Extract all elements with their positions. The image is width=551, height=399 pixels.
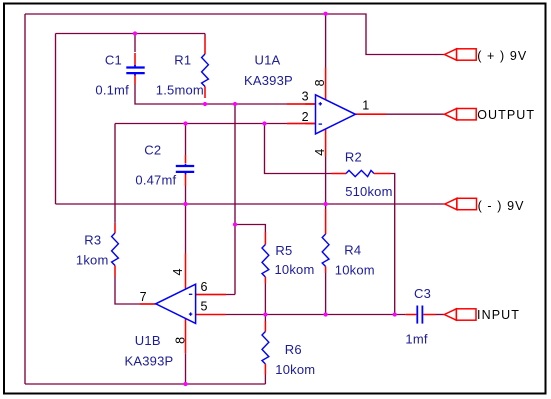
node junction pin8 bottom rail bbox=[183, 382, 187, 386]
resistor R1 bbox=[156, 37, 209, 99]
wire R2 branch from pin2 net bbox=[265, 124, 332, 174]
node junction R2 input net bbox=[393, 312, 397, 316]
wire C2 top stub bbox=[185, 124, 187, 156]
svg-text:( - ) 9V: ( - ) 9V bbox=[478, 199, 525, 213]
wire R2 right to input node bbox=[391, 174, 395, 315]
svg-text:U1B: U1B bbox=[135, 333, 161, 348]
wire pin2 / C2 top net bbox=[115, 123, 316, 125]
svg-text:C2: C2 bbox=[144, 143, 161, 158]
resistor R6 bbox=[262, 321, 315, 377]
svg-text:1: 1 bbox=[362, 99, 369, 113]
svg-text:8: 8 bbox=[313, 79, 327, 86]
wire R1 top stub bbox=[204, 34, 206, 37]
svg-text:4: 4 bbox=[171, 268, 185, 275]
svg-text:R1: R1 bbox=[174, 52, 191, 67]
resistor R5 bbox=[262, 232, 315, 284]
port INPUT bbox=[444, 308, 520, 322]
wire C2 bottom stub bbox=[185, 186, 187, 204]
resistor R2 bbox=[332, 149, 393, 199]
svg-text:10kom: 10kom bbox=[275, 362, 315, 377]
svg-text:( + ) 9V: ( + ) 9V bbox=[477, 49, 527, 63]
svg-text:R5: R5 bbox=[275, 243, 292, 258]
svg-text:0.1mf: 0.1mf bbox=[95, 82, 129, 97]
wire to R5 top bbox=[235, 225, 265, 233]
svg-text:U1A: U1A bbox=[255, 53, 281, 68]
svg-text:1.5mom: 1.5mom bbox=[156, 83, 204, 98]
svg-text:1mf: 1mf bbox=[405, 332, 427, 347]
wire pin5 / input net bbox=[226, 314, 406, 316]
op-amp U1A bbox=[244, 53, 386, 157]
node junction R5 branch bbox=[233, 222, 237, 226]
wire R3 branch vertical bbox=[114, 124, 116, 223]
wire U1A pin4 vertical bbox=[325, 157, 327, 205]
node junction R4 input net bbox=[324, 312, 328, 316]
node junction R5/R6 input net bbox=[263, 312, 267, 316]
svg-text:10kom: 10kom bbox=[275, 262, 315, 277]
wire pin3 net bbox=[135, 84, 316, 104]
capacitor C3 bbox=[405, 286, 435, 347]
wire R3 bottom to pin7 bbox=[115, 277, 156, 305]
op-amp U1B bbox=[125, 254, 227, 369]
wire R5 bottom bbox=[264, 284, 266, 315]
svg-text:510kom: 510kom bbox=[345, 184, 392, 199]
svg-text:3: 3 bbox=[302, 89, 309, 103]
svg-text:R2: R2 bbox=[345, 149, 362, 164]
node junction C2 top bbox=[183, 121, 187, 125]
wire U1B pin8 lower bbox=[185, 353, 187, 384]
port OUTPUT bbox=[445, 108, 536, 122]
node junction top pin8 bbox=[324, 12, 328, 16]
node junction C2 bottom rail bbox=[183, 202, 187, 206]
wire C1 loop top bbox=[56, 33, 206, 35]
wire branch from pin3 node down bbox=[234, 104, 236, 295]
wire R6 bottom corner bbox=[264, 375, 266, 385]
wire R4 bottom bbox=[325, 273, 327, 315]
resistor R3 bbox=[76, 223, 119, 277]
svg-text:R6: R6 bbox=[285, 342, 302, 357]
wire U1B pin4 vertical bbox=[185, 204, 187, 254]
wire pin1 to OUTPUT bbox=[386, 113, 445, 115]
wire top outer rail bbox=[25, 14, 445, 55]
resistor R4 bbox=[322, 209, 375, 278]
wire bottom rail bbox=[25, 383, 265, 385]
wire U1A pin8 vertical bbox=[325, 14, 327, 68]
svg-text:10kom: 10kom bbox=[335, 263, 375, 278]
svg-text:2: 2 bbox=[302, 110, 309, 124]
svg-text:C1: C1 bbox=[105, 52, 122, 67]
svg-text:7: 7 bbox=[140, 290, 147, 304]
svg-text:KA393P: KA393P bbox=[125, 353, 174, 368]
wire C1 loop left bbox=[55, 34, 57, 205]
capacitor C1 bbox=[95, 52, 144, 97]
svg-text:1kom: 1kom bbox=[76, 253, 109, 268]
svg-text:R4: R4 bbox=[344, 243, 361, 258]
capacitor C2 bbox=[135, 143, 194, 188]
node junction C1 top bbox=[133, 31, 137, 35]
wire R4 top stub bbox=[325, 204, 327, 209]
svg-text:4: 4 bbox=[313, 149, 327, 156]
wire middle rail to (-)9V bbox=[56, 203, 445, 205]
node junction R1 bottom bbox=[203, 102, 207, 106]
wire left outer rail bbox=[24, 14, 26, 384]
node junction pin3 branch bbox=[233, 102, 237, 106]
wire pin6 horizontal bbox=[196, 294, 235, 296]
svg-text:6: 6 bbox=[201, 280, 208, 294]
port (-)9V bbox=[445, 198, 525, 213]
svg-text:R3: R3 bbox=[84, 232, 101, 247]
svg-text:5: 5 bbox=[201, 300, 208, 314]
port (+)9V bbox=[445, 49, 528, 63]
svg-text:8: 8 bbox=[173, 337, 187, 344]
svg-text:KA393P: KA393P bbox=[244, 73, 293, 88]
node junction pin4 rail bbox=[324, 202, 328, 206]
svg-text:C3: C3 bbox=[414, 286, 431, 301]
svg-text:0.47mf: 0.47mf bbox=[135, 173, 176, 188]
wire C1 top lead bbox=[134, 34, 136, 53]
svg-text:OUTPUT: OUTPUT bbox=[477, 108, 535, 122]
svg-text:INPUT: INPUT bbox=[477, 308, 520, 322]
wire R6 top stub bbox=[264, 315, 266, 322]
node junction R2 branch bbox=[262, 121, 266, 125]
